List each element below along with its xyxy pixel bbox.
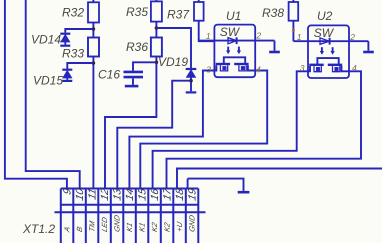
svg-text:SW: SW <box>314 26 335 40</box>
wire R32 top lead <box>92 0 94 2</box>
diode VD14 <box>60 34 70 46</box>
transistor U2 output element right <box>328 65 342 72</box>
svg-text:4: 4 <box>256 64 261 74</box>
svg-text:K1: K1 <box>138 222 147 233</box>
resistor R36 <box>151 38 162 57</box>
svg-text:VD19: VD19 <box>158 55 188 69</box>
wire left rail 1 to terminal 9 <box>5 0 67 189</box>
svg-text:K2: K2 <box>163 221 172 233</box>
svg-text:SW: SW <box>220 25 241 39</box>
wire R38 top lead <box>292 0 294 2</box>
wire terminal 19 GND line <box>188 179 244 191</box>
svg-text:U1: U1 <box>226 9 241 23</box>
ground bottom GND <box>238 191 250 194</box>
svg-text:+U: +U <box>175 220 184 232</box>
diode U2 LED <box>320 38 330 45</box>
transistor U1 output element right <box>234 64 248 71</box>
svg-text:B: B <box>75 226 84 233</box>
resistor R35 <box>151 1 162 21</box>
ground U2 pin2 <box>363 51 374 54</box>
wire U2 light arrows <box>320 47 334 54</box>
svg-text:GND: GND <box>188 214 197 233</box>
wire R35 bottom to R36 top <box>155 22 157 38</box>
svg-text:R38: R38 <box>262 6 284 20</box>
wire U1 pin 4 to T15 staircase <box>140 65 267 189</box>
svg-text:3: 3 <box>300 63 305 73</box>
svg-text:1: 1 <box>297 32 302 42</box>
transistor U1 output element left <box>216 64 230 71</box>
wire U1 pin1 line through box to pin2 <box>199 40 275 42</box>
diode U1 LED <box>228 37 237 44</box>
svg-text:R35: R35 <box>126 5 148 19</box>
wire R33 bottom down to terminal 11 <box>92 57 94 190</box>
svg-text:3: 3 <box>206 64 211 74</box>
wire R35 junction to VD19 <box>156 28 191 68</box>
connector XT1.2 terminal block <box>55 189 206 243</box>
op-amp U2 optocoupler box <box>308 25 349 78</box>
wire junction to VD14 <box>65 29 93 33</box>
svg-text:R33: R33 <box>62 46 84 60</box>
wire U2 pin 2 ground drop <box>367 41 369 51</box>
wire VD19 to T13 staircase <box>117 81 191 189</box>
svg-text:2: 2 <box>349 32 355 42</box>
node junction VD19 anode branch <box>189 79 193 83</box>
svg-text:K2: K2 <box>150 221 159 233</box>
op-amp U1 optocoupler box <box>214 25 255 78</box>
diode VD19 <box>186 69 197 92</box>
svg-text:GND: GND <box>113 214 122 233</box>
wire terminal 19 drop <box>187 179 189 189</box>
capacitor C16 <box>124 62 157 86</box>
wire terminal 18 +U line to right edge <box>177 169 382 190</box>
wire U2 pin 3 to T16 staircase <box>153 66 310 189</box>
svg-text:2: 2 <box>255 30 261 40</box>
wire U2 pin 4 to T17 staircase <box>167 66 362 189</box>
wire R37 bottom to U1 pin 1 <box>199 21 214 42</box>
wire U1 light arrows <box>226 47 240 54</box>
wire R37 top lead <box>198 0 200 2</box>
svg-text:R36: R36 <box>126 40 148 54</box>
svg-text:U2: U2 <box>317 9 333 23</box>
wire R35 top lead <box>155 0 157 1</box>
svg-text:C16: C16 <box>98 67 120 81</box>
svg-text:1: 1 <box>206 31 211 41</box>
svg-text:R32: R32 <box>62 6 84 20</box>
node junction R32/R33/VD14 <box>92 27 96 31</box>
wire U1 pin 3 to T14 staircase <box>129 65 216 189</box>
resistor R38 <box>289 2 299 21</box>
diode VD15 <box>62 70 72 81</box>
wire U2 output bridge <box>317 58 338 64</box>
wire U1 pin 2 ground drop <box>274 41 276 51</box>
ground U1 pin2 <box>269 51 280 54</box>
svg-text:XT1.2: XT1.2 <box>22 222 55 236</box>
resistor R37 <box>194 2 204 21</box>
wire junction to VD15 <box>67 63 93 69</box>
node junction R33/VD15/T11 <box>92 61 96 65</box>
wire U2 pin1 line through box to pin2 <box>293 40 368 42</box>
transistor U2 output element left <box>309 65 323 72</box>
wire left rail 2 to terminal 10 <box>26 0 80 189</box>
wire U1 output bridge <box>224 57 245 63</box>
svg-text:A: A <box>63 226 72 234</box>
svg-text:R37: R37 <box>167 8 190 22</box>
node junction C16/R36 lead <box>155 61 159 65</box>
wire R38 bottom to U2 pin 1 <box>292 21 294 42</box>
resistor R33 <box>88 38 99 57</box>
resistor R32 <box>88 2 99 22</box>
wire R32 bottom to R33 top <box>92 23 94 38</box>
svg-text:K1: K1 <box>125 222 134 233</box>
svg-text:VD15: VD15 <box>33 74 63 88</box>
svg-text:LED: LED <box>100 216 109 233</box>
svg-text:TM: TM <box>88 219 97 233</box>
node junction R35/R36/wire <box>155 26 159 30</box>
wire R36 bottom down to T12 staircase <box>105 57 156 190</box>
node red mark on R38 lead <box>292 29 295 32</box>
svg-text:4: 4 <box>352 63 357 73</box>
svg-text:VD14: VD14 <box>31 33 61 47</box>
